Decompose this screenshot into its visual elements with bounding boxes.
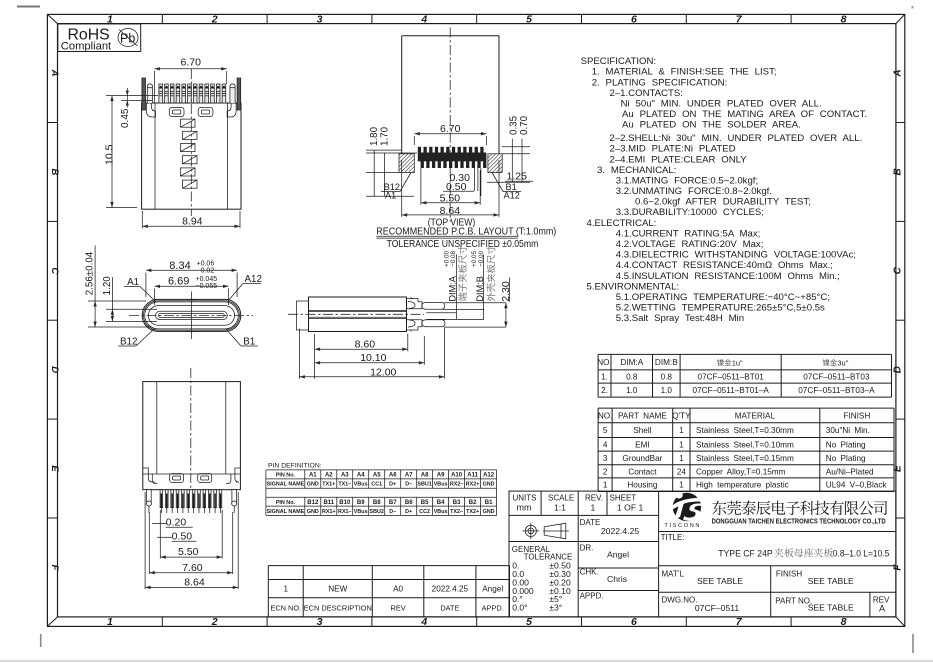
svg-text:No Plating: No Plating xyxy=(826,440,866,449)
svg-text:Housing: Housing xyxy=(627,481,657,490)
svg-text:B3: B3 xyxy=(453,500,461,506)
svg-text:1.0: 1.0 xyxy=(626,386,638,395)
svg-text:FINISH: FINISH xyxy=(776,570,802,579)
svg-text:1.70: 1.70 xyxy=(380,126,391,146)
svg-text:A4: A4 xyxy=(357,473,365,479)
svg-text:2.56±0.04: 2.56±0.04 xyxy=(85,251,96,295)
svg-text:MAT’L: MAT’L xyxy=(662,570,685,579)
svg-text:2.30: 2.30 xyxy=(501,281,512,301)
svg-text:Angel: Angel xyxy=(482,585,503,594)
svg-text:Au PLATED ON THE SOLDER A: Au PLATED ON THE SOLDER AREA. xyxy=(622,120,801,131)
svg-text:3.2.UNMATING FORCE:0.8~2.0kgf: 3.2.UNMATING FORCE:0.8~2.0kgf. xyxy=(616,186,772,197)
svg-text:F: F xyxy=(49,565,60,571)
svg-text:RX1+: RX1+ xyxy=(322,509,336,515)
svg-text:1.20: 1.20 xyxy=(102,276,113,296)
svg-text:D–: D– xyxy=(405,482,412,488)
svg-text:TYPE CF 24P: TYPE CF 24P xyxy=(718,549,773,560)
svg-text:2–3.MID PLATE:Ni PLATED: 2–3.MID PLATE:Ni PLATED xyxy=(610,144,736,155)
svg-text:1.: 1. xyxy=(601,373,608,382)
RoHS compliant logo xyxy=(58,24,141,53)
svg-text:A: A xyxy=(892,69,903,77)
svg-text:4: 4 xyxy=(603,440,608,449)
svg-text:CC1: CC1 xyxy=(371,482,382,488)
svg-text:1:1: 1:1 xyxy=(554,503,566,513)
svg-text:High temperature plastic: High temperature plastic xyxy=(696,481,789,490)
svg-text:UNITS: UNITS xyxy=(513,493,537,502)
svg-text:1: 1 xyxy=(284,585,289,594)
svg-text:2–2.SHELL:Ni 30u" MIN. UNDE: 2–2.SHELL:Ni 30u" MIN. UNDER PLATED OVER… xyxy=(610,133,863,144)
svg-text:GND: GND xyxy=(307,482,319,488)
svg-text:DONGGUAN TAICHEN ELECTRONICS: DONGGUAN TAICHEN ELECTRONICS TECHNOLOGY … xyxy=(712,517,886,526)
svg-text:8.94: 8.94 xyxy=(182,216,203,228)
svg-text:4: 4 xyxy=(420,13,427,25)
svg-text:8.60: 8.60 xyxy=(355,339,376,351)
svg-text:30u"Ni Min.: 30u"Ni Min. xyxy=(826,426,870,435)
svg-text:1: 1 xyxy=(603,481,608,490)
svg-text:10.5: 10.5 xyxy=(104,144,116,165)
svg-text:0.8: 0.8 xyxy=(661,373,673,382)
svg-text:0.8: 0.8 xyxy=(626,373,638,382)
svg-text:Stainless Steel,T=0.15mm: Stainless Steel,T=0.15mm xyxy=(696,454,794,463)
svg-text:4.1.CURRENT RATING:5A Max;: 4.1.CURRENT RATING:5A Max; xyxy=(616,228,761,239)
svg-text:1.0: 1.0 xyxy=(661,386,673,395)
svg-text:Shell: Shell xyxy=(633,426,651,435)
svg-text:TX1+: TX1+ xyxy=(322,482,335,488)
svg-text:A3: A3 xyxy=(341,473,349,479)
svg-text:D+: D+ xyxy=(389,482,396,488)
svg-text:8: 8 xyxy=(841,13,847,25)
svg-text:A9: A9 xyxy=(437,473,445,479)
svg-text:1: 1 xyxy=(679,426,684,435)
svg-text:ECN NO.: ECN NO. xyxy=(270,603,301,612)
svg-text:SHEET: SHEET xyxy=(610,493,637,502)
svg-text:3: 3 xyxy=(317,616,323,628)
svg-text:8.64: 8.64 xyxy=(184,577,205,589)
svg-text:B: B xyxy=(892,168,903,175)
svg-text:SBU2: SBU2 xyxy=(370,509,384,515)
svg-text:−0.08: −0.08 xyxy=(450,250,457,267)
svg-text:A6: A6 xyxy=(389,473,397,479)
part number table xyxy=(597,354,891,397)
connector side view (view 4) xyxy=(288,246,512,379)
svg-text:Copper Alloy,T=0.15mm: Copper Alloy,T=0.15mm xyxy=(696,467,786,476)
svg-text:VBus: VBus xyxy=(434,509,448,515)
svg-text:NO.: NO. xyxy=(598,412,613,421)
svg-text:1: 1 xyxy=(591,503,596,513)
svg-text:5: 5 xyxy=(603,426,608,435)
svg-text:EMI: EMI xyxy=(635,440,650,449)
svg-text:Compliant: Compliant xyxy=(61,41,112,53)
svg-text:B6: B6 xyxy=(405,500,413,506)
svg-text:ECN DESCRIPTION: ECN DESCRIPTION xyxy=(304,603,372,612)
connector front view (view 3) xyxy=(85,246,262,348)
svg-text:A12: A12 xyxy=(483,473,495,479)
svg-text:5.3.Salt Spray Test:48H Min: 5.3.Salt Spray Test:48H Min xyxy=(616,313,744,324)
svg-text:5.50: 5.50 xyxy=(178,546,199,558)
specification text block xyxy=(581,56,867,324)
svg-text:0.50: 0.50 xyxy=(172,531,193,543)
svg-text:Stainless Steel,T=0.10mm: Stainless Steel,T=0.10mm xyxy=(696,440,794,449)
svg-text:A: A xyxy=(49,69,60,77)
svg-text:C: C xyxy=(49,267,60,274)
svg-text:RX2–: RX2– xyxy=(450,482,464,488)
svg-text:FINISH: FINISH xyxy=(843,412,870,421)
svg-text:Contact: Contact xyxy=(628,467,657,476)
svg-text:VBus: VBus xyxy=(434,482,448,488)
svg-text:DIM:B: DIM:B xyxy=(475,276,485,302)
svg-text:A2: A2 xyxy=(325,473,333,479)
svg-text:B2: B2 xyxy=(469,500,477,506)
svg-text:REV: REV xyxy=(390,603,405,612)
svg-text:TX1–: TX1– xyxy=(338,482,351,488)
svg-text:A: A xyxy=(879,604,885,614)
svg-text:C: C xyxy=(892,266,903,274)
svg-text:mm: mm xyxy=(517,503,532,513)
svg-text:PIN No.: PIN No. xyxy=(276,473,296,479)
svg-text:07CF–0511–BT01–A: 07CF–0511–BT01–A xyxy=(693,386,770,395)
svg-text:DATE: DATE xyxy=(580,518,601,527)
svg-text:±3°: ±3° xyxy=(549,603,562,613)
svg-text:RX2+: RX2+ xyxy=(466,482,480,488)
svg-text:No Plating: No Plating xyxy=(826,454,866,463)
svg-text:D+: D+ xyxy=(405,509,412,515)
svg-text:DATE: DATE xyxy=(440,603,459,612)
svg-text:Chris: Chris xyxy=(607,574,627,584)
svg-text:B: B xyxy=(49,168,60,175)
svg-text:3u": 3u" xyxy=(837,358,848,367)
svg-text:Stainless Steel,T=0.30mm: Stainless Steel,T=0.30mm xyxy=(696,426,794,435)
svg-text:TISCONN: TISCONN xyxy=(664,523,701,529)
svg-text:0.45: 0.45 xyxy=(120,108,131,128)
svg-text:VBus: VBus xyxy=(354,482,368,488)
svg-text:SEE TABLE: SEE TABLE xyxy=(697,576,743,586)
svg-text:DIM:A: DIM:A xyxy=(620,358,643,367)
svg-text:A5: A5 xyxy=(373,473,381,479)
svg-text:6.69: 6.69 xyxy=(168,276,189,288)
svg-text:Q'TY: Q'TY xyxy=(672,412,691,421)
svg-text:1 OF 1: 1 OF 1 xyxy=(617,503,643,513)
svg-text:DIM:B: DIM:B xyxy=(655,358,678,367)
svg-text:5.2.WETTING TEMPERATURE:265±5: 5.2.WETTING TEMPERATURE:265±5°C,5±0.5s xyxy=(616,303,825,314)
svg-text:2–4.EMI PLATE:CLEAR ONLY: 2–4.EMI PLATE:CLEAR ONLY xyxy=(610,154,748,165)
svg-text:RX1–: RX1– xyxy=(338,509,352,515)
svg-text:4.2.VOLTAGE RATING:20V Max;: 4.2.VOLTAGE RATING:20V Max; xyxy=(616,239,764,250)
svg-text:D–: D– xyxy=(389,509,396,515)
svg-text:3.1.MATING FORCE:0.5~2.0kgf;: 3.1.MATING FORCE:0.5~2.0kgf; xyxy=(616,176,758,187)
svg-text:0.8–1.0 L=10.5: 0.8–1.0 L=10.5 xyxy=(833,549,890,560)
svg-text:B11: B11 xyxy=(323,500,334,506)
svg-text:APPD.: APPD. xyxy=(580,591,604,600)
svg-text:A7: A7 xyxy=(405,473,413,479)
svg-text:SPECIFICATION:: SPECIFICATION: xyxy=(581,56,657,67)
svg-text:UL94 V–0,Black: UL94 V–0,Black xyxy=(826,481,888,490)
svg-text:GND: GND xyxy=(307,509,319,515)
svg-text:6: 6 xyxy=(631,616,637,628)
svg-text:CHK.: CHK. xyxy=(580,568,599,577)
svg-text:B12: B12 xyxy=(307,500,319,506)
svg-text:Pb: Pb xyxy=(120,32,135,46)
svg-text:1.25: 1.25 xyxy=(507,171,528,183)
svg-text:0.6~2.0kgf AFTER DURABILITY: 0.6~2.0kgf AFTER DURABILITY TEST; xyxy=(635,197,811,208)
svg-text:6.70: 6.70 xyxy=(440,123,461,135)
connector top view (view 1) xyxy=(104,57,242,229)
svg-text:A11: A11 xyxy=(467,473,478,479)
svg-text:NO.: NO. xyxy=(597,358,612,367)
bill of materials table xyxy=(598,408,894,491)
pin definition table xyxy=(266,463,497,516)
svg-text:+0.045: +0.045 xyxy=(196,276,218,283)
svg-text:5.1.OPERATING TEMPERATURE:−40: 5.1.OPERATING TEMPERATURE:−40°C~+85°C; xyxy=(616,292,830,303)
svg-text:1: 1 xyxy=(107,616,113,628)
svg-text:1: 1 xyxy=(679,454,684,463)
svg-text:3: 3 xyxy=(317,13,323,25)
svg-text:SEE TABLE: SEE TABLE xyxy=(808,602,854,612)
svg-text:TX2–: TX2– xyxy=(450,509,463,515)
svg-text:3.3.DURABILITY:10000 CYCLES;: 3.3.DURABILITY:10000 CYCLES; xyxy=(616,207,764,218)
svg-text:1: 1 xyxy=(679,440,684,449)
svg-text:E: E xyxy=(49,465,60,472)
svg-text:SEE TABLE: SEE TABLE xyxy=(808,576,854,586)
svg-text:D: D xyxy=(49,366,60,373)
svg-text:SCALE: SCALE xyxy=(548,493,574,502)
svg-text:B5: B5 xyxy=(421,500,429,506)
svg-text:1: 1 xyxy=(679,481,684,490)
svg-text:SIGNAL NAME: SIGNAL NAME xyxy=(267,509,305,515)
svg-text:PART NO.: PART NO. xyxy=(775,597,812,606)
svg-text:Au/Ni–Plated: Au/Ni–Plated xyxy=(826,467,874,476)
svg-text:TITLE:: TITLE: xyxy=(661,533,685,542)
svg-text:2–1.CONTACTS:: 2–1.CONTACTS: xyxy=(610,88,683,99)
svg-text:6.70: 6.70 xyxy=(181,57,202,69)
svg-text:F: F xyxy=(892,564,903,571)
svg-text:1u": 1u" xyxy=(732,358,743,367)
svg-text:GroundBar: GroundBar xyxy=(622,454,662,463)
svg-text:DR.: DR. xyxy=(580,543,594,552)
connector bottom view (view 5) xyxy=(143,368,241,589)
svg-text:4.3.DIELECTRIC WITHSTANDING: 4.3.DIELECTRIC WITHSTANDING VOLTAGE:100V… xyxy=(616,250,856,261)
svg-text:PIN DEFINITION:: PIN DEFINITION: xyxy=(268,463,322,470)
svg-text:5: 5 xyxy=(526,616,532,628)
svg-text:4.5.INSULATION RESISTANCE:100: 4.5.INSULATION RESISTANCE:100M Ohms Min.… xyxy=(616,271,840,282)
svg-text:24: 24 xyxy=(677,467,687,476)
svg-text:Ni 50u" MIN. UNDER PLATED: Ni 50u" MIN. UNDER PLATED OVER ALL. xyxy=(621,98,822,109)
svg-text:CC2: CC2 xyxy=(419,509,430,515)
svg-text:2: 2 xyxy=(211,13,218,25)
svg-text:A0: A0 xyxy=(393,585,403,594)
svg-text:0.0°: 0.0° xyxy=(512,603,527,613)
svg-text:B9: B9 xyxy=(357,500,365,506)
ECN revision table xyxy=(268,566,509,617)
recommended PCB layout view (view 2) xyxy=(366,28,556,251)
svg-text:2.: 2. xyxy=(601,386,608,395)
svg-text:Angel: Angel xyxy=(607,550,629,560)
svg-text:2022.4.25: 2022.4.25 xyxy=(432,585,469,594)
svg-text:DIM:A: DIM:A xyxy=(447,275,457,301)
svg-text:B4: B4 xyxy=(437,500,445,506)
svg-text:+0.06: +0.06 xyxy=(197,261,215,268)
svg-text:2022.4.25: 2022.4.25 xyxy=(601,526,639,536)
svg-text:PART NAME: PART NAME xyxy=(618,412,667,421)
svg-text:2: 2 xyxy=(603,467,608,476)
svg-text:APPD.: APPD. xyxy=(482,603,504,612)
svg-text:REV.: REV. xyxy=(585,493,603,502)
svg-text:5.ENVIRONMENTAL:: 5.ENVIRONMENTAL: xyxy=(587,281,680,292)
svg-text:A10: A10 xyxy=(451,473,463,479)
svg-text:PIN No.: PIN No. xyxy=(276,500,296,506)
svg-text:0.70: 0.70 xyxy=(519,115,530,135)
svg-text:07CF–0511–BT03–A: 07CF–0511–BT03–A xyxy=(798,386,875,395)
title block xyxy=(509,491,896,617)
svg-text:5: 5 xyxy=(526,13,532,25)
svg-text:DWG.NO.: DWG.NO. xyxy=(662,596,698,605)
svg-text:A8: A8 xyxy=(421,473,429,479)
svg-text:TX2+: TX2+ xyxy=(466,509,479,515)
svg-text:4.ELECTRICAL:: 4.ELECTRICAL: xyxy=(587,218,657,229)
svg-text:GND: GND xyxy=(483,482,495,488)
svg-text:VBus: VBus xyxy=(354,509,368,515)
svg-text:B8: B8 xyxy=(373,500,381,506)
svg-text:NEW: NEW xyxy=(328,585,347,594)
svg-text:2: 2 xyxy=(211,616,218,628)
svg-text:B1: B1 xyxy=(485,500,493,506)
svg-text:GND: GND xyxy=(483,509,495,515)
svg-text:0.20: 0.20 xyxy=(166,517,187,529)
svg-text:Au PLATED ON THE MATING A: Au PLATED ON THE MATING AREA OF CONTACT. xyxy=(622,109,867,120)
svg-text:07CF–0511: 07CF–0511 xyxy=(695,603,739,613)
svg-text:3. MECHANICAL:: 3. MECHANICAL: xyxy=(597,165,676,176)
svg-text:B7: B7 xyxy=(389,500,397,506)
svg-text:4: 4 xyxy=(420,616,427,628)
svg-text:−0.02: −0.02 xyxy=(197,268,215,275)
svg-text:D: D xyxy=(892,366,903,373)
svg-text:07CF–0511–BT01: 07CF–0511–BT01 xyxy=(698,373,765,382)
svg-text:1. MATERIAL & FINISH:SEE T: 1. MATERIAL & FINISH:SEE THE LIST; xyxy=(592,67,777,78)
svg-text:SBU1: SBU1 xyxy=(417,482,431,488)
svg-text:−0.00: −0.00 xyxy=(478,250,485,267)
drawing title xyxy=(718,548,889,559)
svg-text:07CF–0511–BT03: 07CF–0511–BT03 xyxy=(803,373,870,382)
svg-text:4.4.CONTACT RESISTANCE:40mΩ: 4.4.CONTACT RESISTANCE:40mΩ Ohms Max.; xyxy=(616,260,833,271)
svg-text:A1: A1 xyxy=(309,473,317,479)
svg-text:6: 6 xyxy=(631,13,637,25)
svg-text:10.10: 10.10 xyxy=(360,352,386,364)
svg-text:8: 8 xyxy=(841,616,847,628)
svg-text:MATERIAL: MATERIAL xyxy=(735,412,776,421)
svg-text:SIGNAL NAME: SIGNAL NAME xyxy=(267,482,305,488)
svg-text:1.80: 1.80 xyxy=(369,126,380,146)
svg-text:7.60: 7.60 xyxy=(182,562,203,574)
svg-text:B10: B10 xyxy=(339,500,351,506)
company logo TISCONN xyxy=(664,492,703,529)
svg-text:3: 3 xyxy=(603,454,608,463)
svg-text:2. PLATING SPECIFICATION:: 2. PLATING SPECIFICATION: xyxy=(592,77,728,88)
